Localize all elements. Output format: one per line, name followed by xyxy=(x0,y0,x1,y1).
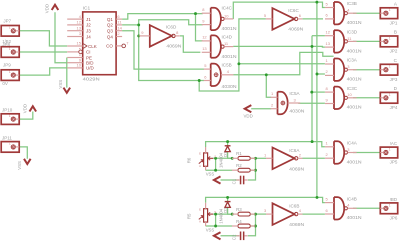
svg-text:J3: J3 xyxy=(86,29,91,34)
svg-text:8: 8 xyxy=(202,7,205,12)
svg-text:IC5B: IC5B xyxy=(222,62,232,67)
svg-text:10: 10 xyxy=(347,92,352,97)
connector JP8 xyxy=(1,47,19,58)
wire IC3A out to JP3 xyxy=(353,69,380,71)
junction Q1 line xyxy=(194,12,197,15)
svg-text:CLK: CLK xyxy=(88,44,97,49)
IC1 pin CLK xyxy=(67,45,83,47)
VSS supply below IC1 PE xyxy=(64,88,71,93)
svg-text:IC6C: IC6C xyxy=(288,8,299,13)
svg-text:4: 4 xyxy=(227,69,230,74)
junction V1 at block1 rail xyxy=(311,140,314,143)
svg-text:IC6D: IC6D xyxy=(166,25,177,30)
svg-text:VSS: VSS xyxy=(58,80,63,89)
svg-text:D2: D2 xyxy=(223,207,228,213)
junction at IC5B pin 6 xyxy=(198,79,201,82)
svg-text:6: 6 xyxy=(299,13,302,18)
svg-text:3: 3 xyxy=(347,147,350,152)
svg-text:1: 1 xyxy=(389,8,391,12)
svg-text:15: 15 xyxy=(77,41,82,46)
svg-text:R3: R3 xyxy=(236,207,242,212)
svg-text:4030N: 4030N xyxy=(289,109,304,114)
svg-text:5: 5 xyxy=(264,13,267,18)
NOR gate IC3C xyxy=(334,87,344,109)
svg-text:10: 10 xyxy=(77,63,82,68)
connector JP1 xyxy=(380,8,397,19)
svg-text:4: 4 xyxy=(79,14,82,19)
wire block2 rail (IC4C out to pot R5 / D2 / IC4B pin 5) xyxy=(206,197,325,202)
connector JP5 xyxy=(380,147,397,158)
svg-text:3: 3 xyxy=(264,208,267,213)
wire Q1 to IC4C pin 8 and IC4D pin 12 xyxy=(122,14,203,20)
svg-text:1: 1 xyxy=(9,47,11,51)
svg-text:6: 6 xyxy=(326,208,329,213)
connector JP10 xyxy=(1,114,19,125)
svg-text:J2: J2 xyxy=(86,23,91,28)
wire Q3 to IC5B pin 5 xyxy=(122,31,204,69)
connector JP4 xyxy=(380,92,397,103)
VSS arrow at C2 xyxy=(214,232,221,239)
svg-text:IC3C: IC3C xyxy=(347,86,358,91)
junction Q2 at IC1 xyxy=(137,23,140,26)
wire IC6A out to IC4A pin 2 xyxy=(303,157,325,159)
svg-text:U/D: U/D xyxy=(86,66,95,71)
XOR gate IC5A xyxy=(278,92,288,114)
svg-text:4069N: 4069N xyxy=(289,166,304,171)
svg-text:C2: C2 xyxy=(231,234,236,240)
svg-text:3: 3 xyxy=(79,31,82,36)
connector JP3 xyxy=(380,64,397,75)
svg-text:S: S xyxy=(214,154,216,158)
svg-text:CO: CO xyxy=(106,44,113,49)
wire IC4A out to JP5 xyxy=(353,152,380,154)
connector JP6 xyxy=(380,203,397,214)
svg-text:IC4B: IC4B xyxy=(347,196,357,201)
wire IC6C out to IC3B pin 6 xyxy=(303,18,324,20)
IC1 pin J1 xyxy=(67,18,83,20)
wire Q2 net xyxy=(122,24,139,26)
svg-text:7: 7 xyxy=(126,41,129,46)
junction V1 at IC3C pin 8 xyxy=(310,91,313,94)
svg-text:VDD: VDD xyxy=(22,104,27,113)
junction R4 right xyxy=(254,225,257,228)
wire JP9 to IC1 U/D xyxy=(19,68,67,75)
wire IC6D out to IC4D pin 13 xyxy=(180,36,201,52)
svg-text:1: 1 xyxy=(326,58,329,63)
NOR gate IC4A xyxy=(334,141,344,163)
svg-text:4069N: 4069N xyxy=(166,43,181,48)
svg-text:3: 3 xyxy=(347,64,350,69)
wire pot R5 wiper to R3/R4 left xyxy=(213,213,232,215)
resistor R4 xyxy=(238,224,250,228)
svg-text:VSS: VSS xyxy=(206,227,215,232)
svg-text:1: 1 xyxy=(9,114,11,118)
NOR gate IC3A xyxy=(334,59,344,81)
IC1 pin J2 xyxy=(67,24,83,26)
svg-text:5: 5 xyxy=(326,196,329,201)
svg-text:1: 1 xyxy=(389,93,391,97)
svg-text:Q4: Q4 xyxy=(107,34,114,39)
svg-text:E: E xyxy=(199,152,201,156)
resistor R2 xyxy=(238,168,250,172)
svg-text:A: A xyxy=(199,220,201,224)
svg-text:C: C xyxy=(394,58,398,63)
IC1 pin J4 xyxy=(67,36,83,38)
svg-text:2: 2 xyxy=(299,152,302,157)
svg-text:IC6B: IC6B xyxy=(289,204,299,209)
svg-text:12: 12 xyxy=(77,20,82,25)
svg-text:6: 6 xyxy=(326,13,329,18)
wire JP8 to IC1 CI xyxy=(19,51,67,53)
XOR gate IC5B xyxy=(211,64,221,86)
inverter IC6A xyxy=(273,148,295,170)
wire IC4B out to JP6 xyxy=(353,207,380,209)
wire IC4D out to IC3D pins and down xyxy=(233,45,325,48)
inverter IC6D xyxy=(150,25,172,47)
svg-text:1: 1 xyxy=(9,70,11,74)
svg-text:11: 11 xyxy=(117,20,122,25)
svg-text:1: 1 xyxy=(389,36,391,40)
junction V2 at block2 rail xyxy=(316,196,319,199)
svg-text:4001N: 4001N xyxy=(347,159,362,164)
IC1 pin B/D xyxy=(67,62,83,64)
wire IC3C out to JP4 xyxy=(353,97,380,99)
svg-text:1: 1 xyxy=(9,142,11,146)
svg-text:12: 12 xyxy=(326,30,331,35)
svg-text:0V: 0V xyxy=(2,81,8,86)
connector JP9 xyxy=(1,70,19,81)
VDD supply near IC5A xyxy=(245,105,252,112)
wire R3/R4/C2 right to IC6B input xyxy=(250,213,266,215)
svg-text:JP7: JP7 xyxy=(3,19,11,24)
junction R2 right xyxy=(254,169,257,172)
svg-text:JP2: JP2 xyxy=(390,49,398,54)
svg-text:9: 9 xyxy=(202,18,205,23)
junction R4 left link xyxy=(214,225,217,228)
svg-text:5: 5 xyxy=(79,47,82,52)
svg-text:A: A xyxy=(394,1,398,6)
svg-text:E: E xyxy=(199,207,201,211)
svg-text:13: 13 xyxy=(77,25,82,30)
svg-text:IC3B: IC3B xyxy=(347,1,357,6)
svg-text:12: 12 xyxy=(202,35,207,40)
wire JP11 to VSS xyxy=(19,147,27,159)
svg-text:IC1: IC1 xyxy=(83,6,91,12)
svg-text:!AC: !AC xyxy=(390,141,397,146)
junction R3 left xyxy=(231,213,234,216)
wire R1/R2/C1 right to IC6A input xyxy=(250,157,266,159)
svg-text:2: 2 xyxy=(117,31,120,36)
svg-text:VDD: VDD xyxy=(244,113,253,118)
svg-text:9: 9 xyxy=(326,97,329,102)
svg-text:4001N: 4001N xyxy=(347,215,362,220)
svg-text:IC4C: IC4C xyxy=(222,6,233,11)
svg-text:14: 14 xyxy=(117,25,122,30)
IC1 pin CI xyxy=(67,51,79,53)
capacitor C1 xyxy=(240,176,242,185)
svg-text:13: 13 xyxy=(326,41,331,46)
trimmer potentiometer R5 xyxy=(204,209,208,222)
svg-text:A: A xyxy=(199,164,201,168)
junction R2 left xyxy=(214,169,217,172)
svg-text:JP9: JP9 xyxy=(3,63,11,68)
wire D2 cathode to rail xyxy=(227,197,229,201)
wire D1 cathode to rail xyxy=(227,142,229,146)
svg-text:4069N: 4069N xyxy=(288,26,303,31)
svg-text:4: 4 xyxy=(347,203,350,208)
NOR gate IC4C xyxy=(211,8,221,30)
svg-text:1: 1 xyxy=(389,148,391,152)
svg-text:VSS: VSS xyxy=(206,172,215,177)
inverter IC6B xyxy=(273,203,295,225)
svg-text:IC3D: IC3D xyxy=(347,29,358,34)
svg-text:R5: R5 xyxy=(186,213,191,219)
wire JP7 to IC1 CLK xyxy=(19,31,67,46)
connector JP2 xyxy=(380,36,397,47)
wire VDD to IC1 B/D xyxy=(55,12,67,62)
IC1 pin J3 xyxy=(67,30,83,32)
svg-text:1: 1 xyxy=(271,91,274,96)
svg-text:6: 6 xyxy=(204,74,207,79)
svg-text:C1: C1 xyxy=(231,178,236,184)
connector JP7 xyxy=(1,26,19,37)
svg-text:JP8: JP8 xyxy=(2,42,10,47)
junction R1 left xyxy=(231,157,234,160)
svg-text:5: 5 xyxy=(326,1,329,6)
resistor R1 xyxy=(238,156,250,160)
junction R1 right xyxy=(254,157,257,160)
wire IC4C out to IC3B pin 5 via top xyxy=(233,2,325,19)
svg-text:J4: J4 xyxy=(86,34,91,39)
svg-text:2: 2 xyxy=(271,103,274,108)
inverter IC6C xyxy=(272,8,294,30)
svg-text:JP5: JP5 xyxy=(390,160,398,165)
VSS arrow at C1 xyxy=(214,176,221,183)
junction R5 wiper xyxy=(214,213,217,216)
svg-text:IC6A: IC6A xyxy=(289,148,300,153)
IC1 pin PE xyxy=(67,57,83,59)
svg-text:4: 4 xyxy=(299,208,302,213)
wire VSS arrow to C2 left xyxy=(221,235,240,237)
svg-text:VDD: VDD xyxy=(45,4,50,13)
svg-text:4001N: 4001N xyxy=(347,105,362,110)
wire pot R6 wiper to R1/R2 left xyxy=(213,157,232,159)
wire IC3B out to JP1 xyxy=(353,12,380,14)
IC1 pin Q1 xyxy=(116,18,122,20)
svg-text:4001N: 4001N xyxy=(222,26,237,31)
junction IC5B out to IC5A xyxy=(265,73,268,76)
wire pot R6 bottom to R2 left xyxy=(206,169,233,171)
capacitor C2 xyxy=(240,232,242,241)
svg-text:4: 4 xyxy=(347,8,350,13)
junction Q2 loop riser xyxy=(237,62,240,65)
IC1 pin Q3 xyxy=(116,30,122,32)
junction Q2 at IC6D input xyxy=(137,34,140,37)
junction IC4D out at V1 xyxy=(311,45,314,48)
svg-text:6: 6 xyxy=(117,14,120,19)
svg-text:1: 1 xyxy=(9,26,11,30)
svg-text:Q3: Q3 xyxy=(107,29,114,34)
IC1 pin Q2 xyxy=(116,24,122,26)
svg-text:1: 1 xyxy=(389,203,391,207)
svg-text:JP6: JP6 xyxy=(390,216,398,221)
wire JP10 to VDD xyxy=(19,112,32,120)
wire VSS arrow to C1 left xyxy=(221,179,240,181)
IC1 pin U/D xyxy=(67,67,83,69)
svg-text:Q2: Q2 xyxy=(107,23,114,28)
svg-text:4001N: 4001N xyxy=(347,48,362,53)
trimmer potentiometer R6 xyxy=(204,153,208,166)
svg-text:8: 8 xyxy=(176,30,179,35)
svg-text:J1: J1 xyxy=(86,17,91,22)
wire IC5B out loop to IC5A pin 1 and IC3D lower route xyxy=(234,52,334,74)
svg-text:4001N: 4001N xyxy=(347,77,362,82)
svg-text:Q1: Q1 xyxy=(107,17,114,22)
VSS supply near JP11 xyxy=(24,159,31,164)
svg-text:11: 11 xyxy=(224,41,229,46)
svg-text:13: 13 xyxy=(202,46,207,51)
IC1 pin CO xyxy=(116,45,122,47)
svg-text:IC5A: IC5A xyxy=(289,91,300,96)
wire D2 anode to R3 left xyxy=(228,208,233,215)
svg-text:1: 1 xyxy=(389,65,391,69)
connector JP11 xyxy=(1,142,19,153)
NOR gate IC3D xyxy=(334,30,344,52)
wire IC6B out to IC4B pin 6 xyxy=(303,213,325,215)
IC1 pin Q4 xyxy=(116,36,122,38)
svg-text:9: 9 xyxy=(141,30,144,35)
resistor R3 xyxy=(238,212,250,216)
diode D2 xyxy=(225,201,231,203)
svg-text:!BD: !BD xyxy=(390,197,397,202)
VDD supply near IC1 xyxy=(52,5,59,10)
svg-text:CI: CI xyxy=(86,50,91,55)
svg-text:R4: R4 xyxy=(236,219,242,224)
svg-text:R2: R2 xyxy=(236,163,242,168)
svg-text:4030N: 4030N xyxy=(222,84,237,89)
junction D1 at rail xyxy=(226,140,229,143)
junction IC4C out top line xyxy=(315,1,318,4)
NOR gate IC3B xyxy=(334,2,344,24)
svg-text:S: S xyxy=(214,210,216,214)
svg-text:JP4: JP4 xyxy=(390,105,398,110)
svg-text:JP3: JP3 xyxy=(390,77,398,82)
svg-text:10: 10 xyxy=(224,13,229,18)
svg-text:IC4D: IC4D xyxy=(222,34,233,39)
svg-text:VSS: VSS xyxy=(17,161,22,170)
svg-text:1: 1 xyxy=(326,141,329,146)
wire D1 anode to R1 left xyxy=(228,152,233,159)
svg-text:5: 5 xyxy=(204,63,207,68)
IC6D input stub xyxy=(139,35,150,37)
junction V2 at IC3A pin 2 xyxy=(316,73,319,76)
svg-text:3: 3 xyxy=(294,97,297,102)
svg-text:8: 8 xyxy=(326,86,329,91)
wire block1 rail (IC4D out to pot R6 / D1 / IC4A pin 1) xyxy=(206,142,325,147)
svg-text:JP11: JP11 xyxy=(2,135,12,140)
wire IC5A out to IC3C pin 9 xyxy=(298,102,325,104)
svg-text:2: 2 xyxy=(326,69,329,74)
junction D2 at rail xyxy=(226,196,229,199)
svg-text:4001N: 4001N xyxy=(222,54,237,59)
svg-text:R1: R1 xyxy=(236,151,242,156)
svg-text:R6: R6 xyxy=(186,157,191,163)
NOR gate IC4D xyxy=(211,35,221,57)
diode D1 xyxy=(225,145,231,147)
svg-text:1: 1 xyxy=(264,152,267,157)
VDD supply near JP10 xyxy=(30,106,37,111)
wire IC3D out to JP2 xyxy=(353,40,380,42)
svg-text:D: D xyxy=(394,86,398,91)
wire pot R5 bottom to R4 left xyxy=(206,225,233,227)
svg-text:11: 11 xyxy=(347,36,352,41)
junction R3 right xyxy=(254,213,257,216)
junction R6 wiper xyxy=(214,157,217,160)
svg-text:4001N: 4001N xyxy=(347,20,362,25)
svg-text:D1: D1 xyxy=(223,151,228,157)
wire IC1 PE to VSS xyxy=(66,58,68,88)
IC 4029 counter IC1 xyxy=(83,12,116,75)
svg-text:B: B xyxy=(394,30,397,35)
NOR gate IC4B xyxy=(334,197,344,219)
svg-text:IC3A: IC3A xyxy=(347,58,358,63)
svg-text:2: 2 xyxy=(326,152,329,157)
svg-text:JP1: JP1 xyxy=(390,20,398,25)
svg-text:4069N: 4069N xyxy=(289,222,304,227)
svg-text:IC4A: IC4A xyxy=(347,141,358,146)
wire IC4C out vertical to IC3A pin 2 and block2 rail xyxy=(316,2,318,197)
wire VDD to IC5A pin 2 xyxy=(251,108,271,110)
svg-text:4029N: 4029N xyxy=(83,77,101,83)
svg-text:JP10: JP10 xyxy=(2,107,13,112)
